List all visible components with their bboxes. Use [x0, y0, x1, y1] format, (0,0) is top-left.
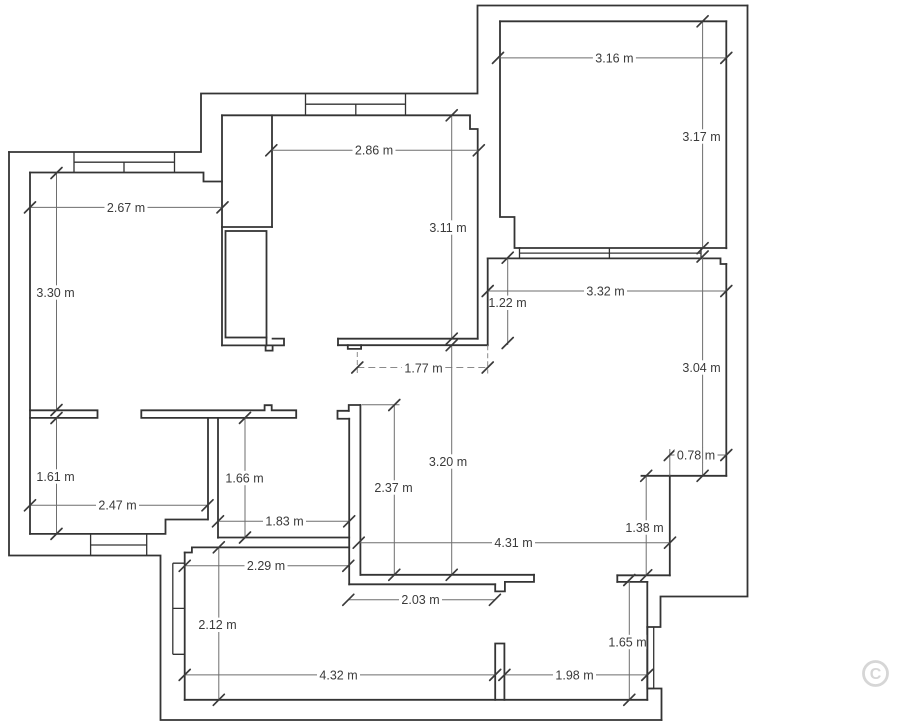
terrace window bottom wall line [488, 258, 727, 264]
tick 3.20 top [446, 340, 457, 351]
vertical wall band left jamb tab [338, 411, 350, 419]
tick 4.31 left [353, 537, 364, 548]
label 3.17 m [680, 129, 723, 143]
kitchen bottom door jamb tab [348, 345, 361, 349]
label 0.78 m [675, 448, 718, 462]
dimension 2.12 m line [218, 547, 220, 700]
dimension 3.04 m line [702, 257, 704, 476]
label 2.03 m [399, 593, 442, 607]
dimension 3.30 m line [56, 173, 58, 410]
terrace window mid line [520, 252, 702, 254]
dimension 3.17 m line [702, 21, 704, 248]
label 3.32 m [584, 284, 627, 298]
tick 1.98 right [642, 669, 653, 680]
terrace inner right wall [725, 21, 727, 248]
tick 3.30 top [51, 168, 62, 179]
tick 4.32 right [490, 669, 501, 680]
label 1.22 m [490, 296, 530, 310]
wall between rooms x=218 [217, 418, 219, 538]
dimension 4.32 m line [185, 674, 496, 676]
left vertical window glazing [172, 563, 174, 654]
left room bottom wall with step [30, 520, 208, 534]
bottom inner wall [185, 699, 648, 701]
terrace inner left wall with step [500, 21, 520, 248]
dimension 3.04 m line overdraw through 0.78 label gap [702, 448, 704, 463]
tick 2.03 right [489, 594, 500, 605]
tick 3.32 right [721, 286, 732, 297]
svg-text:1.61 m: 1.61 m [36, 470, 74, 484]
vertical wall band left line [348, 419, 350, 585]
bottom right band bottom line [617, 581, 647, 583]
label 3.04 m [680, 360, 723, 374]
terrace window right cap [700, 248, 702, 258]
label 2.37 m [372, 480, 415, 494]
right room bottom stub wall [642, 475, 727, 477]
tick 3.11 bottom [446, 333, 457, 344]
label 1.61 m [34, 469, 77, 483]
outer wall bottom [9, 152, 662, 720]
living area right wall stub [669, 476, 671, 576]
right wall below terrace [725, 264, 727, 476]
inner wall left x=184.7 [184, 553, 186, 700]
svg-text:2.86 m: 2.86 m [355, 144, 393, 158]
dimension 1.65 m line [628, 580, 630, 700]
window left wall pane edges [74, 152, 175, 173]
svg-text:1.65 m: 1.65 m [608, 635, 646, 649]
tick 2.67 right [217, 202, 228, 213]
label 2.29 m [245, 559, 288, 573]
dimension 0.78 m left extension [669, 449, 671, 476]
label 1.65 m [606, 635, 647, 649]
label 4.32 m [317, 668, 360, 682]
inner wall left of rooms x=30 [29, 173, 31, 534]
svg-text:3.20 m: 3.20 m [429, 455, 467, 469]
tick 0.78 right [721, 450, 732, 461]
right wall x=647 lower [646, 582, 648, 700]
tick 2.86 right [473, 145, 484, 156]
dimension 3.20 m line [451, 345, 453, 575]
window left wall divider [123, 162, 125, 172]
right lower window inner line [653, 627, 655, 689]
tick 1.98 left [499, 669, 510, 680]
dimension 1.66 m line [244, 418, 246, 538]
dimension 3.16 m line [498, 57, 726, 59]
dimension 2.86 m line [271, 149, 479, 151]
svg-text:1.98 m: 1.98 m [555, 668, 593, 682]
dimension 1.22 m line [507, 258, 509, 345]
tick 1.83 left [213, 516, 224, 527]
svg-text:2.03 m: 2.03 m [401, 593, 439, 607]
kitchen bottom wall band left cap [337, 339, 339, 346]
dimension 2.29 m line [185, 565, 349, 567]
dimension 1.83 m line [218, 520, 349, 522]
outer wall top-left room [9, 6, 748, 153]
closet top [222, 226, 272, 228]
dimension 3.32 m line [488, 290, 727, 292]
label 3.30 m [34, 285, 77, 299]
tick 3.16 right [721, 52, 732, 63]
tick 3.11 top [446, 110, 457, 121]
tick 1.77 left [352, 362, 363, 373]
label 3.20 m [427, 454, 470, 468]
tick 2.12 bottom [213, 694, 224, 705]
tick 2.12 top [213, 542, 224, 553]
wall left of living area [487, 258, 489, 345]
tick 2.47 right [202, 500, 213, 511]
dimension 2.47 m line [30, 504, 208, 506]
tick 1.22 top [502, 252, 513, 263]
window top wall divider [355, 104, 357, 115]
terrace window divider [608, 248, 610, 258]
dimension 3.11 m line [451, 115, 453, 338]
tick 2.37 bottom [389, 569, 400, 580]
window top wall pane edges [306, 94, 406, 116]
wall x=222 closet left [221, 115, 223, 345]
tick 4.32 left [179, 669, 190, 680]
svg-text:0.78 m: 0.78 m [677, 448, 715, 462]
tick 1.65 bottom [624, 694, 635, 705]
svg-text:2.47 m: 2.47 m [98, 499, 136, 513]
left vertical window caps [173, 563, 185, 654]
tick 3.04 top [697, 251, 708, 262]
svg-text:1.83 m: 1.83 m [265, 515, 303, 529]
svg-text:3.17 m: 3.17 m [682, 130, 720, 144]
kitchen bottom wall band bottom line [338, 344, 488, 346]
label 2.47 m [96, 498, 139, 512]
vertical wall band top [349, 405, 361, 411]
label 1.98 m [553, 668, 596, 682]
tick 2.29 left [179, 560, 190, 571]
dimension 1.98 m line [504, 674, 647, 676]
closet inner right extension [266, 338, 268, 346]
closet door jamb tab [266, 345, 273, 350]
dimension 1.61 m line [56, 418, 58, 534]
dimension 2.03 m line [348, 599, 495, 601]
svg-text:3.04 m: 3.04 m [682, 361, 720, 375]
central room bottom wall step [495, 575, 534, 592]
copyright watermark [864, 662, 888, 686]
window bottom left mid line [91, 544, 147, 546]
bottom wall stub divider [495, 644, 504, 700]
wall between rooms x=208 [207, 418, 209, 520]
dimension 1.38 m line [645, 476, 647, 576]
tick 1.66 top [240, 412, 251, 423]
label 3.16 m [593, 51, 636, 65]
svg-text:2.37 m: 2.37 m [374, 481, 412, 495]
label 3.11 m [427, 220, 470, 234]
tick 1.77 right [482, 362, 493, 373]
tick 2.29 right [343, 560, 354, 571]
tick 2.37 top [389, 400, 400, 411]
tick 3.32 left [482, 286, 493, 297]
tick 1.61 bottom [51, 528, 62, 539]
svg-text:4.32 m: 4.32 m [319, 668, 357, 682]
tick 1.65 top [624, 575, 635, 586]
central room bottom wall lower line [349, 583, 495, 585]
dimension 1.77 m dashed line [357, 367, 487, 369]
bottom right band top line [617, 574, 670, 576]
outer wall right side [647, 6, 747, 628]
terrace window left cap [519, 248, 521, 258]
svg-text:1.77 m: 1.77 m [404, 361, 442, 375]
central room bottom wall top line [360, 574, 534, 576]
tick 2.03 left [343, 594, 354, 605]
tick 3.17 bottom [697, 243, 708, 254]
tick 3.20 bottom [446, 569, 457, 580]
label 1.77 m [402, 361, 445, 375]
tick 3.16 left [493, 52, 504, 63]
dimension 2.37 m line [393, 405, 395, 575]
entry step walls [185, 547, 192, 552]
kitchen bottom wall band top line [338, 338, 478, 340]
tick 3.17 top [697, 16, 708, 27]
terrace inner top wall [500, 20, 726, 22]
svg-text:1.22 m: 1.22 m [488, 296, 526, 310]
closet inner box [226, 231, 267, 338]
svg-text:3.11 m: 3.11 m [429, 221, 466, 235]
right lower window caps [647, 688, 653, 690]
label 2.67 m [105, 200, 148, 214]
label 1.38 m [623, 520, 666, 534]
svg-text:2.12 m: 2.12 m [198, 618, 236, 632]
corridor south wall right segment with notch [141, 405, 296, 418]
window top wall mid line [306, 103, 406, 105]
svg-text:3.30 m: 3.30 m [36, 286, 74, 300]
terrace window top line [520, 247, 727, 249]
small room bottom band bottom line [192, 546, 349, 548]
window left wall mid line [74, 161, 175, 163]
svg-text:2.67 m: 2.67 m [107, 201, 145, 215]
tick 3.04 bottom [697, 470, 708, 481]
closet right wall [271, 115, 273, 227]
dimension 4.31 m line [359, 542, 670, 544]
tick 2.86 left [266, 145, 277, 156]
svg-text:3.32 m: 3.32 m [586, 284, 624, 298]
dimension 2.37 m top extension [362, 404, 400, 406]
dimension 0.78 m line [670, 454, 727, 456]
small room bottom band top line [218, 537, 349, 539]
tick 1.38 bottom [641, 570, 652, 581]
vertical wall band right line [359, 405, 361, 575]
label 2.86 m [353, 143, 396, 157]
dimension 2.67 m line [30, 206, 223, 208]
dimension 1.77 m dashed extensions [357, 345, 487, 373]
label 1.83 m [263, 514, 306, 528]
tick 1.61 top [51, 413, 62, 424]
label 2.12 m [196, 618, 239, 632]
tick 3.30 bottom [51, 405, 62, 416]
tick 0.78 left [664, 450, 675, 461]
tick 1.66 bottom [240, 532, 251, 543]
tick 1.22 bottom [502, 338, 513, 349]
tick 2.47 left [25, 500, 36, 511]
outer wall right window edge [647, 627, 661, 720]
label 4.31 m [492, 536, 535, 550]
svg-text:3.16 m: 3.16 m [595, 52, 633, 66]
label 1.66 m [223, 471, 266, 485]
tick 1.38 top [641, 470, 652, 481]
tick 1.83 right [344, 516, 355, 527]
svg-text:C: C [870, 666, 882, 683]
svg-text:4.31 m: 4.31 m [494, 536, 532, 550]
bottom right band left cap [616, 575, 618, 582]
corridor south wall left segment [30, 410, 98, 418]
svg-text:1.38 m: 1.38 m [625, 521, 663, 535]
inner wall top of left room [30, 173, 222, 182]
inner line of top wall [222, 115, 478, 338]
svg-text:1.66 m: 1.66 m [225, 471, 263, 485]
tick 2.67 left [25, 202, 36, 213]
svg-text:2.29 m: 2.29 m [247, 559, 285, 573]
window bottom left pane edges [91, 534, 147, 556]
tick 4.31 right [665, 537, 676, 548]
closet bottom wall [222, 339, 284, 346]
